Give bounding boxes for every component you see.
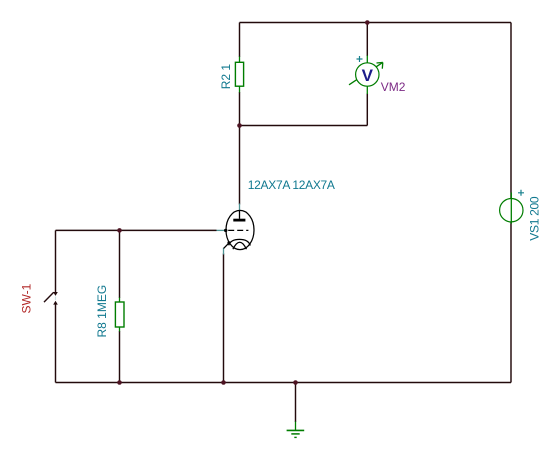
svg-text:R8 1MEG: R8 1MEG [95,285,109,338]
svg-text:VM2: VM2 [381,80,406,94]
svg-text:VS1 200: VS1 200 [528,196,542,241]
svg-text:SW-1: SW-1 [19,283,33,313]
svg-text:V: V [362,66,374,85]
svg-text:12AX7A 12AX7A: 12AX7A 12AX7A [248,178,335,192]
svg-text:R2 1: R2 1 [219,64,233,90]
